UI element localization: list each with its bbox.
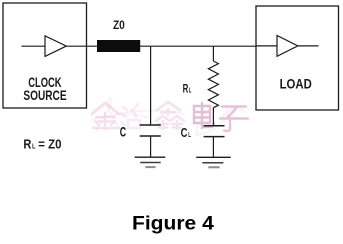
wire into clock buffer bbox=[22, 45, 46, 47]
label RL bbox=[183, 81, 192, 95]
label RL = Z0 bbox=[23, 137, 61, 151]
buffer U2 in load bbox=[277, 36, 298, 57]
wire node to capacitor C bbox=[150, 46, 152, 125]
svg-text:LOAD: LOAD bbox=[280, 77, 312, 92]
capacitor CL bbox=[204, 126, 225, 137]
svg-text:L: L bbox=[189, 87, 192, 94]
wire load buffer output bbox=[298, 45, 319, 47]
wire capacitor CL to ground bbox=[212, 137, 214, 157]
svg-text:C: C bbox=[120, 125, 126, 140]
wire buffer to box edge bbox=[66, 45, 86, 47]
svg-text:Figure 4: Figure 4 bbox=[132, 212, 214, 234]
svg-text:SOURCE: SOURCE bbox=[23, 88, 66, 103]
svg-text:L: L bbox=[188, 132, 191, 139]
transmission line Z0 bbox=[97, 40, 140, 52]
svg-text:C: C bbox=[181, 126, 188, 140]
main wire clock source to load bbox=[87, 45, 257, 47]
svg-text:R: R bbox=[23, 137, 31, 151]
buffer U1 in clock source bbox=[45, 36, 66, 57]
label CL bbox=[181, 126, 192, 140]
wire node to resistor RL bbox=[212, 46, 214, 61]
svg-text:= Z0: = Z0 bbox=[38, 137, 61, 151]
capacitor C bbox=[140, 125, 161, 136]
svg-text:L: L bbox=[32, 143, 36, 150]
wire into load buffer bbox=[256, 45, 277, 47]
ground below CL bbox=[196, 157, 231, 167]
resistor RL bbox=[208, 61, 218, 108]
label CLOCK SOURCE bbox=[23, 75, 66, 103]
clock source box bbox=[3, 3, 87, 108]
svg-text:R: R bbox=[183, 81, 189, 95]
load box bbox=[256, 6, 339, 110]
wire resistor RL to capacitor CL bbox=[212, 108, 214, 126]
svg-text:Z0: Z0 bbox=[113, 20, 125, 32]
watermark bbox=[92, 98, 248, 135]
wire capacitor C to ground bbox=[150, 136, 152, 157]
ground below C bbox=[135, 157, 166, 167]
